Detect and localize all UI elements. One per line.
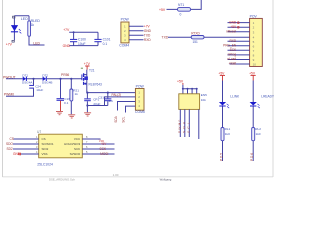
svg-text:CS: CS <box>42 137 46 141</box>
wire bottom rail <box>87 106 107 113</box>
svg-text:LLINK: LLINK <box>230 95 240 99</box>
wire pin2 <box>105 97 136 106</box>
svg-text:DT2: DT2 <box>42 73 48 77</box>
svg-text:PAL(2): PAL(2) <box>112 93 122 97</box>
wire <box>129 26 144 40</box>
capacitor C31 <box>98 93 113 106</box>
power +5V <box>218 71 225 80</box>
svg-text:POV: POV <box>250 15 258 19</box>
wire pin3 <box>118 102 136 111</box>
wire <box>69 32 98 45</box>
svg-text:PR56: PR56 <box>61 73 69 77</box>
diode D1 DSG4A <box>22 73 33 84</box>
svg-text:HOLD/SIO3: HOLD/SIO3 <box>64 142 80 146</box>
svg-text:RL1: RL1 <box>225 127 231 131</box>
LED LLINK <box>219 95 240 109</box>
svg-text:+5V: +5V <box>218 71 225 75</box>
IC U2 <box>179 93 207 110</box>
svg-text:0: 0 <box>180 12 182 16</box>
svg-text:SD2: SD2 <box>7 147 13 151</box>
svg-text:LED: LED <box>21 17 28 21</box>
svg-text:LED: LED <box>33 41 40 45</box>
ground <box>84 113 91 116</box>
svg-text:TXD: TXD <box>162 35 169 39</box>
svg-text:nReset: nReset <box>226 30 236 34</box>
svg-text:1k0: 1k0 <box>256 132 261 136</box>
svg-text:PD6: PD6 <box>250 152 254 161</box>
resistor RL2 <box>252 127 262 141</box>
svg-text:RTXD: RTXD <box>191 32 200 36</box>
resistor RLED <box>28 19 41 36</box>
svg-text:+5V: +5V <box>101 142 108 146</box>
svg-text:RXD: RXD <box>144 38 151 42</box>
svg-text:SO/SIO1: SO/SIO1 <box>42 142 54 146</box>
svg-text:U7: U7 <box>37 130 41 134</box>
svg-text:1k: 1k <box>31 23 35 27</box>
svg-text:SCK: SCK <box>230 48 237 52</box>
wire <box>228 23 250 64</box>
resistor RL1 <box>221 127 231 141</box>
svg-text:C31: C31 <box>98 95 104 99</box>
svg-text:MOSI: MOSI <box>100 152 108 156</box>
diode D2 DSG4B <box>42 73 53 84</box>
svg-text:EN5: EN5 <box>201 93 207 97</box>
svg-text:+5V: +5V <box>249 71 256 75</box>
svg-text:CS: CS <box>10 137 14 141</box>
svg-text:10: 10 <box>253 63 257 67</box>
svg-text:DSE_ARDUINO.Sch: DSE_ARDUINO.Sch <box>49 178 75 182</box>
svg-text:RLB7643: RLB7643 <box>89 82 103 86</box>
capacitor CP1 <box>84 93 100 106</box>
title block text <box>49 173 172 181</box>
svg-text:+5V: +5V <box>159 8 166 12</box>
resistor NT1 <box>178 3 191 16</box>
wire <box>14 16 44 45</box>
power +5V <box>177 79 184 88</box>
svg-text:GND: GND <box>13 152 21 156</box>
svg-text:10uF: 10uF <box>78 42 86 46</box>
svg-text:DSG4A: DSG4A <box>22 81 33 85</box>
capacitor C16 <box>57 79 71 111</box>
wire <box>183 89 197 94</box>
capacitor C101 <box>94 38 110 46</box>
svg-text:+7V: +7V <box>144 24 151 28</box>
power +5V <box>249 71 256 80</box>
svg-text:C101: C101 <box>103 38 111 42</box>
svg-text:PWM0: PWM0 <box>4 92 14 96</box>
sheet border right <box>272 0 274 177</box>
wire left pins <box>13 139 39 154</box>
svg-text:+7V: +7V <box>63 28 70 32</box>
svg-text:PWM0: PWM0 <box>177 119 181 133</box>
wire right pins <box>82 139 114 154</box>
svg-text:GND: GND <box>63 44 71 48</box>
wire pin4 <box>126 106 136 112</box>
svg-text:POW: POW <box>121 17 130 21</box>
ground <box>68 115 75 118</box>
capacitor C24 coupling <box>6 79 43 97</box>
svg-text:PD5: PD5 <box>219 152 223 161</box>
resistor RTXD <box>191 32 204 44</box>
svg-text:0.1: 0.1 <box>103 42 108 46</box>
wire output rail <box>87 92 135 94</box>
svg-text:SCL: SCL <box>121 116 125 122</box>
resistor R21 <box>70 79 79 115</box>
power +7V <box>84 62 91 69</box>
svg-text:COM5: COM5 <box>135 110 145 114</box>
svg-text:10k: 10k <box>201 98 206 102</box>
svg-text:DSG4B: DSG4B <box>42 81 53 85</box>
svg-text:0.1: 0.1 <box>109 99 114 103</box>
transistor T21 RLB7643 <box>82 69 102 93</box>
svg-text:GND: GND <box>229 20 237 24</box>
svg-text:nLoad: nLoad <box>227 57 236 61</box>
svg-text:PRG_EN: PRG_EN <box>223 44 237 48</box>
svg-text:SDA: SDA <box>114 115 118 122</box>
svg-text:Wolfgang: Wolfgang <box>160 177 172 181</box>
wire <box>222 81 224 162</box>
svg-text:VSS: VSS <box>42 152 48 156</box>
svg-text:LREADY: LREADY <box>261 95 275 99</box>
svg-text:C100: C100 <box>78 38 86 42</box>
svg-text:COM4: COM4 <box>119 44 129 48</box>
sheet border left <box>2 0 4 177</box>
svg-text:151: 151 <box>193 40 199 44</box>
svg-text:1.00: 1.00 <box>113 173 119 177</box>
pin square top <box>13 16 15 18</box>
svg-text:25LC1024: 25LC1024 <box>37 162 53 166</box>
compile mark <box>81 68 83 69</box>
svg-text:1k0: 1k0 <box>225 132 230 136</box>
svg-text:+5V: +5V <box>230 25 237 29</box>
svg-text:+5V: +5V <box>177 79 184 83</box>
svg-text:SDO: SDO <box>6 142 13 146</box>
svg-text:0.1: 0.1 <box>64 101 69 105</box>
svg-text:NT1: NT1 <box>178 3 184 7</box>
sheet border bottom <box>3 176 274 178</box>
svg-text:RL2: RL2 <box>255 127 261 131</box>
wire <box>6 78 82 80</box>
svg-text:1k: 1k <box>75 92 79 96</box>
LED D1 <box>11 17 28 34</box>
svg-text:SCK: SCK <box>74 147 80 151</box>
wire <box>252 81 254 162</box>
svg-text:TXD: TXD <box>144 33 151 37</box>
svg-text:+7V: +7V <box>6 43 13 47</box>
ground <box>56 112 63 115</box>
pin square bottom <box>12 40 14 42</box>
svg-text:RXD: RXD <box>229 39 236 43</box>
svg-text:SI/SIO0: SI/SIO0 <box>70 152 81 156</box>
svg-text:SCL: SCL <box>186 120 190 133</box>
svg-text:10uF: 10uF <box>36 88 43 92</box>
svg-text:+Batt: +Batt <box>229 62 237 66</box>
svg-text:DT1: DT1 <box>22 73 28 77</box>
wire <box>168 36 250 38</box>
power +7V <box>63 28 70 32</box>
capacitor C100 <box>70 32 86 46</box>
svg-text:GND: GND <box>144 29 152 33</box>
wire bottom pins <box>180 109 199 139</box>
svg-text:T21: T21 <box>89 69 95 73</box>
svg-text:POW: POW <box>136 85 145 89</box>
svg-text:SIO2: SIO2 <box>42 147 49 151</box>
svg-text:SDA: SDA <box>182 120 186 133</box>
wire <box>167 0 202 9</box>
svg-text:nProg: nProg <box>228 53 237 57</box>
svg-text:SCK: SCK <box>100 147 107 151</box>
svg-text:VCC: VCC <box>74 137 81 141</box>
LED LREADY <box>250 95 275 109</box>
